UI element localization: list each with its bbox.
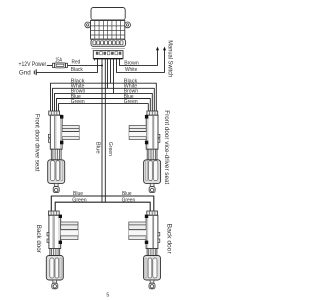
actuator back-right cap — [147, 211, 158, 215]
svg-text:Green: Green — [122, 197, 136, 203]
wire red: fuse to pin3 junction — [68, 64, 103, 66]
wire brown tee — [55, 93, 153, 111]
actuator front-right (mirrored) — [129, 115, 161, 193]
wire green tee — [59, 104, 149, 111]
svg-text:Back door: Back door — [35, 225, 42, 253]
wire pin stub 1 — [94, 59, 96, 61]
wire black tee — [51, 83, 157, 111]
actuator back-right (mirrored) — [129, 215, 161, 289]
svg-text:Front door vice-driver seat: Front door vice-driver seat — [163, 110, 170, 184]
connector plug J1 — [92, 48, 126, 58]
fuse F1 — [53, 63, 68, 68]
svg-text:Back door: Back door — [166, 224, 173, 254]
svg-text:Blue: Blue — [122, 191, 132, 197]
actuator front-left cap — [49, 111, 60, 115]
wire blue tee — [57, 99, 151, 112]
wire white tee — [53, 88, 155, 111]
wire black ground: pin2 down then left to ground — [37, 59, 98, 73]
wire black pin down — [110, 59, 112, 84]
svg-text:5: 5 — [106, 292, 109, 298]
arrow brown — [156, 47, 159, 51]
wire blue long vertical — [101, 59, 103, 203]
control module heatsink grid — [91, 21, 125, 40]
svg-text:Blue: Blue — [73, 191, 83, 197]
svg-text:White: White — [125, 67, 137, 73]
wire white to manual switch — [117, 50, 165, 73]
mounting ear right — [125, 22, 131, 28]
svg-text:Front door driver seat: Front door driver seat — [34, 114, 41, 172]
wire green bottom tee — [55, 202, 150, 211]
svg-text:Green: Green — [72, 197, 86, 203]
svg-text:Black: Black — [71, 67, 83, 73]
actuator front-left — [48, 115, 79, 193]
wire brown to manual switch — [120, 50, 158, 66]
svg-text:Blue: Blue — [94, 142, 100, 154]
mounting ear left — [85, 22, 91, 28]
actuator back-left cap — [48, 211, 59, 215]
wire to fuse — [47, 64, 53, 66]
wire white pin down — [107, 59, 109, 89]
svg-text:15A: 15A — [55, 58, 62, 64]
svg-text:Green: Green — [107, 142, 113, 156]
svg-text:+12V Power: +12V Power — [19, 61, 47, 68]
control module U1 — [91, 8, 126, 40]
wire brown pin down — [113, 59, 115, 94]
svg-text:Green: Green — [124, 99, 138, 105]
actuator front-right cap — [147, 111, 158, 115]
arrow white — [163, 47, 166, 51]
svg-text:Gnd: Gnd — [19, 69, 31, 76]
junction dot red feed — [101, 64, 103, 66]
actuator back-left — [46, 215, 78, 289]
svg-text:Red: Red — [72, 60, 81, 66]
wire blue bottom tee — [51, 196, 154, 211]
svg-text:Green: Green — [71, 99, 85, 105]
module socket strip — [91, 39, 126, 46]
svg-text:Manual Switch: Manual Switch — [167, 40, 174, 78]
ground symbol — [34, 69, 36, 75]
svg-text:Brown: Brown — [124, 61, 139, 67]
wire green long vertical — [104, 59, 106, 203]
